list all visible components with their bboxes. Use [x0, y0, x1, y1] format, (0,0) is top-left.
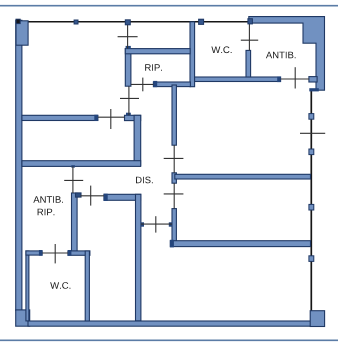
- cap wc lower door right: [68, 250, 72, 256]
- cap dis door right: [169, 222, 172, 226]
- cap room2 top wall right: [94, 115, 98, 121]
- door WC/ANTIB separator: [248, 23, 250, 51]
- label ANTIB. left: [33, 196, 63, 203]
- marker top x201: [199, 19, 204, 24]
- marker top x127: [125, 20, 130, 25]
- cap above RIP corner: [126, 46, 131, 49]
- label W.C. lower: [50, 282, 70, 289]
- room2 corner wall: [125, 115, 141, 120]
- door WC lower top: [42, 252, 68, 254]
- right exterior wall line: [310, 90, 312, 311]
- ANTIB west wall: [246, 50, 251, 77]
- label DIS.: [136, 177, 153, 184]
- door RIP bottom: [131, 83, 154, 85]
- door right wall: [300, 132, 325, 134]
- notch wall E at door: [71, 165, 75, 167]
- cap wall F left: [104, 194, 108, 201]
- RIP top wall: [125, 49, 190, 54]
- wall markers: [16, 19, 314, 262]
- top-left pillar: [16, 21, 28, 45]
- top exterior wall line: [16, 21, 250, 23]
- room2 top wall: [22, 115, 98, 120]
- room2 right wall: [134, 115, 141, 165]
- marker right y116: [309, 114, 314, 120]
- room labels: [33, 46, 295, 288]
- top-right thick wall ANTIB: [249, 17, 325, 91]
- wall A vertical: [136, 194, 141, 320]
- marker right y151: [309, 149, 314, 155]
- WC lower left wall: [26, 251, 29, 321]
- door wall E/C: [72, 166, 74, 193]
- left exterior wall: [16, 20, 22, 310]
- door ANTIB bottom: [281, 78, 309, 80]
- door below RIP: [128, 86, 130, 115]
- cap room2 corner bump: [126, 113, 131, 116]
- wall C top notch: [76, 193, 82, 197]
- label RIP. left: [38, 209, 55, 216]
- door top wall to RIP: [127, 23, 129, 49]
- frame bottom line: [0, 339, 338, 341]
- door wall B opening2: [173, 183, 175, 208]
- cap dis door left: [141, 222, 144, 226]
- room3 bottom wall: [170, 241, 310, 247]
- door wall F: [81, 195, 104, 197]
- marker right y258: [309, 256, 314, 262]
- cap wc-upper bottom wall: [277, 76, 281, 82]
- WC upper left wall: [190, 22, 195, 87]
- door room2 top: [98, 116, 124, 118]
- cap wc lower door left: [39, 250, 43, 256]
- label RIP.: [145, 64, 162, 71]
- bottom-right corner block: [310, 311, 324, 327]
- wall F horizontal: [104, 194, 141, 200]
- thick wall bottom end bar: [309, 88, 319, 91]
- RIP bottom wall: [153, 82, 190, 87]
- label W.C. upper: [211, 46, 231, 53]
- wall B lower: [172, 209, 176, 243]
- dark end caps: [39, 46, 319, 256]
- marker top x250: [248, 19, 253, 24]
- bottom exterior wall: [28, 321, 312, 326]
- wall E horizontal: [22, 161, 141, 167]
- ANTIB bottom wall right segment: [309, 77, 317, 82]
- room3 top wall: [175, 174, 311, 179]
- wall C vertical: [72, 193, 78, 252]
- RIP left wall: [125, 49, 131, 87]
- wall B upper: [172, 85, 176, 145]
- marker top corner: [16, 19, 20, 23]
- door DIS south: [141, 223, 172, 225]
- frame top line: [0, 5, 338, 7]
- WC lower top wall right: [68, 251, 90, 255]
- wall B stub: [172, 173, 176, 183]
- bottom-left corner block: [16, 310, 30, 326]
- door wall B opening1: [173, 145, 175, 173]
- WC lower right wall: [85, 251, 89, 321]
- cap rip bottom wall left: [153, 81, 157, 87]
- cap room3 bottom wall left: [170, 240, 174, 248]
- marker right y207: [309, 204, 314, 210]
- door opening lines and ticks: [42, 23, 325, 264]
- WC lower top wall left: [26, 251, 42, 255]
- marker top x76: [74, 20, 78, 24]
- WC upper bottom wall: [195, 77, 281, 82]
- label ANTIB. right: [266, 52, 296, 59]
